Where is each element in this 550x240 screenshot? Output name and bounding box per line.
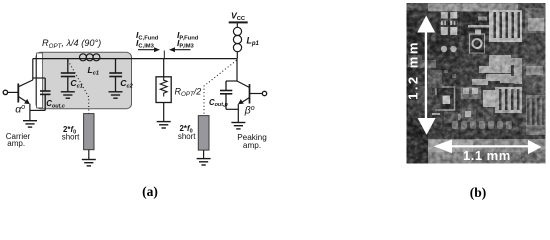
svg-text:(b): (b) [470, 185, 487, 200]
svg-text:short: short [178, 132, 196, 141]
svg-text:1.2 mm: 1.2 mm [405, 40, 420, 100]
svg-text:amp.: amp. [243, 141, 261, 150]
svg-text:amp.: amp. [7, 139, 25, 148]
svg-text:1.1 mm: 1.1 mm [463, 148, 511, 163]
svg-text:(a): (a) [142, 184, 158, 199]
svg-text:short: short [62, 133, 80, 142]
